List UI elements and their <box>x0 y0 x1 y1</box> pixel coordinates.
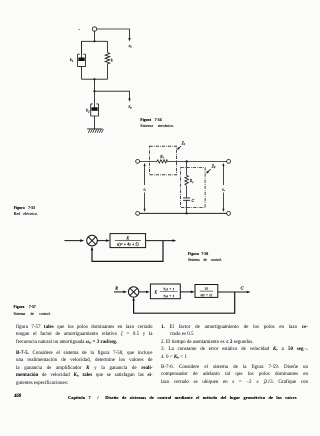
terminal input top <box>136 160 140 164</box>
summing junction <box>87 235 98 246</box>
svg-text:xo: xo <box>127 104 132 110</box>
svg-text:Z2: Z2 <box>212 164 216 170</box>
wire to compensator block <box>139 291 148 293</box>
svg-text:R: R <box>115 285 118 290</box>
wire damper to bottom bar <box>81 66 83 79</box>
node branch top <box>185 160 187 162</box>
svg-text:Z1: Z1 <box>182 140 186 146</box>
svg-text:T2s + 1: T2s + 1 <box>163 294 174 299</box>
wire node to damper b2 <box>94 91 96 104</box>
wire bottom rail <box>140 212 227 214</box>
svg-text:eo: eo <box>222 187 226 192</box>
wire spring to bottom bar <box>107 64 109 79</box>
caption figura 7-55 <box>14 205 38 218</box>
ground <box>87 128 103 130</box>
wire to xo arrow <box>95 91 130 99</box>
svg-text:b2: b2 <box>86 108 90 114</box>
svg-text:s(s2 + 4s + 5): s(s2 + 4s + 5) <box>117 243 140 247</box>
wire feedback branch <box>134 292 235 313</box>
wire input <box>64 240 80 242</box>
wire C to bottom rail <box>186 200 188 213</box>
arrowhead xi <box>128 38 130 42</box>
caption figura 7-57 <box>14 304 51 317</box>
wire R2 to C <box>186 186 188 198</box>
svg-text:K: K <box>154 290 158 294</box>
wire top rail left <box>140 160 158 162</box>
svg-text:K: K <box>125 236 129 240</box>
node top junction <box>93 40 95 42</box>
svg-text:R1: R1 <box>159 155 164 160</box>
terminal output top <box>227 160 231 164</box>
svg-text:xi: xi <box>128 43 132 49</box>
summing junction <box>128 287 138 297</box>
wire input <box>114 291 124 293</box>
wire right branch <box>107 41 109 52</box>
block K/(s(s^2+4s+5)) <box>110 234 146 248</box>
caption figura 7-56 <box>188 251 222 264</box>
node bottom of box <box>93 78 95 80</box>
wire left branch <box>81 41 83 54</box>
wire between blocks <box>180 291 193 293</box>
arrowhead xo <box>128 98 130 102</box>
svg-text:C: C <box>241 286 244 291</box>
node xo junction <box>93 90 95 92</box>
wire top rail right <box>167 160 227 162</box>
damper b2 <box>91 104 99 116</box>
svg-text:s(s + 1): s(s + 1) <box>201 293 213 297</box>
wire top bar <box>82 40 108 42</box>
svg-text:b1: b1 <box>70 57 74 63</box>
wire output <box>146 240 175 242</box>
damper b1 <box>78 41 86 66</box>
svg-text:k: k <box>111 57 113 62</box>
arrow Z1 <box>179 146 181 148</box>
wire branch to R2 <box>186 161 188 175</box>
wire output <box>218 291 249 293</box>
svg-text:C: C <box>192 198 195 203</box>
resistor R2 <box>185 175 189 185</box>
left column text <box>16 325 153 330</box>
impedance box Z2 <box>181 168 206 208</box>
wire damper b2 to ground <box>94 116 96 129</box>
input terminal circle <box>92 27 96 31</box>
wire down to xo node <box>94 79 96 91</box>
block 10/(s(s+1)) <box>195 285 218 298</box>
terminal output bottom <box>227 212 231 216</box>
resistor R1 <box>157 160 168 163</box>
svg-text:R2: R2 <box>189 179 194 184</box>
svg-text:T1s + 1: T1s + 1 <box>163 287 174 292</box>
svg-text:ei: ei <box>144 187 147 192</box>
block K(T1s+1)/(T2s+1) <box>150 284 180 299</box>
capacitor C <box>183 198 190 200</box>
arrow Z2 <box>208 169 211 172</box>
spring k <box>105 53 110 64</box>
wire bottom bar <box>82 78 108 80</box>
wire feedback branch <box>92 241 163 262</box>
voltage ei measure line <box>144 164 146 210</box>
svg-text:10: 10 <box>205 287 209 291</box>
footer <box>14 394 21 399</box>
node branch bottom <box>185 212 187 214</box>
caption figura 7-54 <box>140 118 174 130</box>
wire to xi arrow <box>97 29 130 38</box>
wire circle to node <box>94 31 96 41</box>
right column text <box>161 325 308 330</box>
terminal input bottom <box>136 212 140 216</box>
impedance box Z1 <box>150 146 177 175</box>
wire to block <box>97 240 108 242</box>
voltage eo measure line <box>222 164 224 210</box>
